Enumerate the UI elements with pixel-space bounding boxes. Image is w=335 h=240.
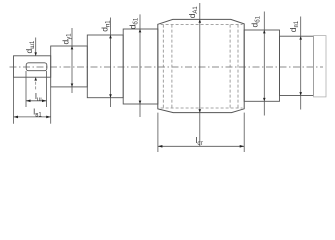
shaft section 6 (d_б1 right) [244, 30, 279, 101]
svg-text:dш1: dш1 [24, 40, 36, 54]
shaft section 1 (d_ш1) [14, 56, 51, 77]
gear dashed vertical 4 [237, 25, 239, 108]
gear root dashed top [161, 24, 243, 26]
dimension l_ш line [26, 100, 47, 102]
dimension d_б1 line [139, 14, 141, 117]
dimension d_ш1 line [35, 38, 37, 56]
dimension d_п1 right line [300, 17, 302, 110]
shaft section 4 (d_б1) [123, 29, 158, 104]
svg-text:dА1: dА1 [187, 6, 199, 19]
gear dashed vertical 1 [162, 25, 164, 108]
label d_б1 right [250, 15, 262, 27]
shaft section 3 (d_п1) [87, 35, 123, 98]
shaft section 7 (d_п1 right) [280, 36, 314, 95]
label d_б1 [127, 17, 139, 29]
dimension l_ст line [158, 145, 244, 147]
dimension l_в1 line [14, 116, 51, 118]
shaft section 5 gear body (d_А1) [158, 19, 244, 112]
dimension l_ст extension lines [157, 113, 159, 152]
svg-text:dп1: dп1 [99, 20, 111, 32]
svg-text:dу1: dу1 [61, 33, 73, 45]
label d_А1 [187, 6, 199, 19]
dimension d_б1 right line [263, 12, 265, 116]
dimension d_А1 line [199, 3, 201, 146]
dimension d_у1 line [71, 28, 73, 93]
gear dashed vertical 3 [229, 25, 231, 108]
dimension l_в1 extension lines [13, 78, 15, 124]
label d_п1 [99, 20, 111, 32]
gear root dashed bottom [161, 107, 243, 109]
label d_п1 right [288, 20, 300, 32]
dimension d_п1 line [110, 18, 112, 108]
svg-text:dб1: dб1 [127, 17, 139, 29]
svg-text:dп1: dп1 [288, 20, 300, 32]
shaft section 2 (d_у1) [51, 46, 88, 87]
shaft section 8 end collar [314, 36, 327, 97]
svg-text:lв1: lв1 [33, 107, 42, 119]
label d_у1 [61, 33, 73, 45]
gear dashed vertical 2 [171, 25, 173, 108]
svg-text:dб1: dб1 [250, 15, 262, 27]
dimension l_ш extension lines [25, 71, 27, 107]
label d_ш1 [24, 40, 36, 54]
keyway [26, 63, 47, 71]
svg-text:lш: lш [35, 91, 42, 103]
centerline [10, 66, 324, 68]
